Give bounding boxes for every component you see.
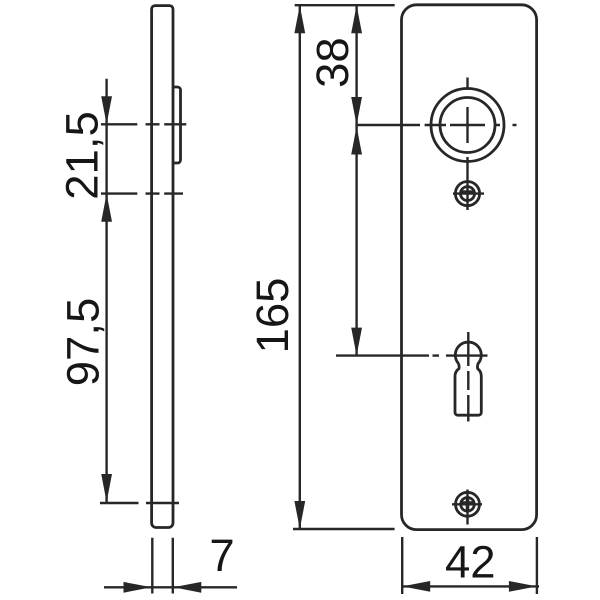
upper screw outer circle bbox=[455, 182, 479, 206]
dimension line 165 bbox=[299, 5, 301, 529]
vertical center line through handle hole and upper screw bbox=[466, 78, 468, 211]
svg-text:21,5: 21,5 bbox=[57, 111, 108, 200]
dimension line 42 bbox=[401, 585, 539, 587]
front view plate outline bbox=[402, 5, 537, 530]
center line at handle height (side view) bbox=[101, 123, 186, 125]
svg-text:165: 165 bbox=[247, 278, 298, 354]
top extension line (front view) bbox=[295, 4, 395, 6]
svg-text:38: 38 bbox=[307, 37, 358, 88]
arrow 165 bottom (down) bbox=[294, 501, 305, 529]
arrow 165 top (up) bbox=[294, 5, 305, 33]
extension lines below front view for dim 42 bbox=[402, 537, 537, 594]
arrow 7 left (right-pointing) bbox=[124, 582, 152, 593]
dimension line hole-to-keyhole bbox=[355, 125, 357, 356]
side view handle hub bump bbox=[173, 87, 181, 163]
lower screw outer circle bbox=[456, 492, 480, 516]
handle hole outer circle bbox=[431, 89, 504, 162]
center line at upper screw height (side view) bbox=[101, 192, 183, 194]
arrow 38 top (up) bbox=[351, 5, 362, 33]
svg-text:97,5: 97,5 bbox=[58, 298, 109, 387]
arrow 21,5 top (down) bbox=[101, 96, 112, 124]
upper screw horizontal center line bbox=[453, 192, 484, 194]
center line at lower screw height (side view) bbox=[100, 502, 179, 504]
arrow 21,5 bottom / 97,5 top (up) bbox=[101, 194, 112, 222]
arrows bbox=[101, 5, 537, 593]
svg-text:7: 7 bbox=[209, 530, 234, 581]
arrow hole-to-keyhole top (up) bbox=[351, 127, 362, 155]
dimension line 7 bbox=[104, 586, 237, 588]
upper screw slot bbox=[461, 190, 474, 194]
dimension texts bbox=[57, 37, 496, 587]
arrow 97,5 bottom (down) bbox=[101, 474, 112, 502]
keyhole vertical center line bbox=[467, 332, 469, 422]
arrow 42 left (left-pointing) bbox=[402, 581, 430, 592]
lower screw center lines bbox=[452, 490, 482, 525]
lower screw slot bbox=[462, 498, 474, 511]
keyhole horizontal center line bbox=[336, 354, 488, 356]
keyhole outline bbox=[455, 342, 481, 415]
dimension line 21,5 / 97,5 bbox=[105, 79, 107, 503]
dimension line 38 bbox=[355, 5, 357, 125]
arrow hole-to-keyhole bottom (down) bbox=[351, 328, 362, 356]
svg-text:42: 42 bbox=[445, 537, 496, 588]
arrow 38 bottom (down) bbox=[351, 97, 362, 125]
arrow 42 right (right-pointing) bbox=[509, 581, 537, 592]
arrow 7 right (left-pointing) bbox=[173, 582, 201, 593]
bottom extension line (front view) bbox=[293, 528, 395, 530]
horizontal center line through handle hole bbox=[358, 124, 517, 126]
extension lines below side view for dim 7 bbox=[152, 538, 173, 594]
handle hole inner circle bbox=[440, 98, 495, 153]
lower screw inner circle bbox=[461, 498, 475, 512]
side view plate outline bbox=[152, 6, 173, 528]
upper screw inner circle bbox=[461, 187, 475, 201]
